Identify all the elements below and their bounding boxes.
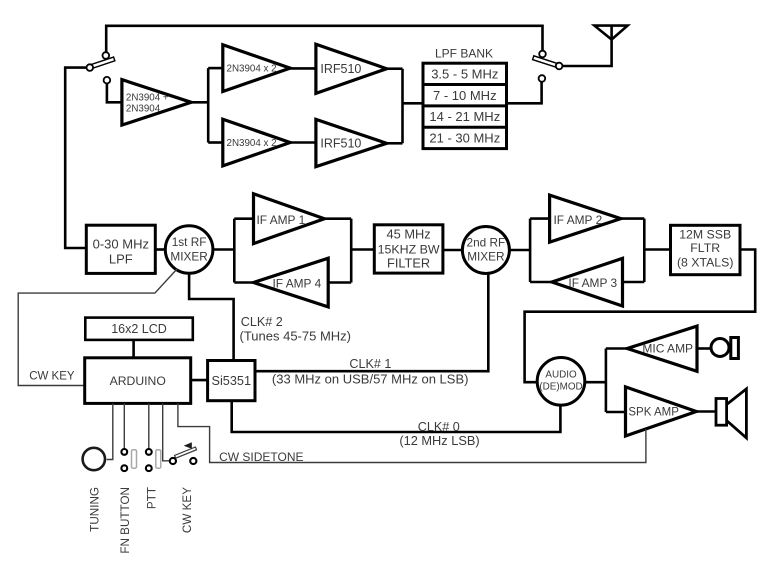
svg-text:IF AMP 4: IF AMP 4 xyxy=(273,276,322,290)
svg-text:IRF510: IRF510 xyxy=(320,136,361,150)
button PTT upper contact xyxy=(146,449,152,455)
button PTT lower contact xyxy=(146,465,152,471)
wire junction to mic amp output xyxy=(606,347,627,350)
filter LPF bank box xyxy=(423,63,507,148)
amp IF AMP 1 xyxy=(254,194,325,244)
wire LCD to Arduino xyxy=(132,340,135,358)
wire CLK#1 from Si5351 to 2nd mixer xyxy=(255,274,488,372)
wire Arduino pin to tuning encoder xyxy=(107,403,113,459)
filter 0-30 MHz LPF xyxy=(86,225,155,273)
speaker xyxy=(727,389,747,438)
svg-text:IRF510: IRF510 xyxy=(320,62,361,76)
wire RX feed from left switch common down to 0-30MHz LPF xyxy=(65,68,86,248)
svg-text:AUDIO: AUDIO xyxy=(545,369,577,380)
wire PA combine junction vertical xyxy=(401,69,404,144)
svg-text:CLK# 0: CLK# 0 xyxy=(418,420,460,434)
wire spk amp to speaker xyxy=(696,410,715,413)
amp PA IRF510 (bottom) xyxy=(316,119,387,166)
antenna xyxy=(594,26,627,40)
wire LPF to 1st mixer xyxy=(155,248,165,251)
wire split to top pre-driver xyxy=(208,67,223,70)
svg-text:LPF: LPF xyxy=(109,252,133,267)
svg-text:PTT: PTT xyxy=(145,487,158,509)
svg-text:CW KEY: CW KEY xyxy=(29,371,75,383)
mixer 2nd RF MIXER xyxy=(462,227,509,274)
wire PA to LPF bank xyxy=(403,102,424,105)
amp IF AMP 3 xyxy=(552,258,623,306)
wire 45MHz filter to 2nd mixer xyxy=(443,249,463,252)
svg-text:FN BUTTON: FN BUTTON xyxy=(119,487,132,554)
svg-text:TUNING: TUNING xyxy=(88,487,101,532)
wire CW KEY line from 1st mixer to Arduino xyxy=(18,269,177,386)
wire Arduino pin to PTT button xyxy=(148,403,150,448)
switch S1 common contact xyxy=(87,64,94,71)
wire IF amp 4 output xyxy=(234,281,253,284)
wire CLK#0 from Si5351 to audio (de)mod xyxy=(232,401,561,432)
wire top IRF510 output xyxy=(387,67,403,70)
svg-text:MIXER: MIXER xyxy=(170,249,207,263)
switch CW key contact xyxy=(190,458,196,464)
svg-text:(33 MHz on USB/57 MHz on LSB): (33 MHz on USB/57 MHz on LSB) xyxy=(272,372,469,387)
wire Arduino pin to FN button xyxy=(123,403,125,448)
wire antenna switch common to antenna xyxy=(562,39,611,66)
svg-text:FLTR: FLTR xyxy=(690,241,720,255)
mcu ARDUINO xyxy=(85,358,191,404)
amp pre-driver 2N3904 x 2 (bottom) xyxy=(223,119,290,166)
svg-text:45 MHz: 45 MHz xyxy=(387,227,431,242)
switch S1 TX/RX lever xyxy=(92,57,115,68)
wire IF amp 1 output xyxy=(324,217,351,220)
wire split junction vertical xyxy=(207,68,210,142)
wire junction to SSB filter xyxy=(644,248,670,251)
svg-text:0-30 MHz: 0-30 MHz xyxy=(93,237,149,252)
wire IF amp 3 output xyxy=(530,281,552,284)
amp pre-driver 2N3904 x 2 (top) xyxy=(223,45,290,92)
amp MIC AMP xyxy=(627,326,697,371)
amp SPK AMP xyxy=(626,387,697,436)
svg-text:CW SIDETONE: CW SIDETONE xyxy=(219,450,303,464)
svg-text:16x2 LCD: 16x2 LCD xyxy=(111,322,167,336)
switch S2 antenna lever xyxy=(533,56,561,69)
button FN upper contact xyxy=(121,449,127,455)
svg-text:2N3904 x 2: 2N3904 x 2 xyxy=(227,64,277,75)
wire to IF amp 3 input xyxy=(623,281,645,284)
svg-text:Si5351: Si5351 xyxy=(212,374,252,388)
wire split to bottom pre-driver xyxy=(208,141,223,144)
wire driver output to split xyxy=(191,101,208,104)
wire IF amp 2/3 left junction xyxy=(529,219,532,282)
wire IF amp 1/4 left junction xyxy=(233,219,236,283)
wire junction to spk amp input xyxy=(606,411,626,414)
wire to IF amp 4 input xyxy=(328,281,351,284)
svg-text:2nd RF: 2nd RF xyxy=(467,235,506,249)
wire bottom IRF510 output xyxy=(387,142,403,145)
amp PA IRF510 (top) xyxy=(316,44,387,93)
svg-text:CW KEY: CW KEY xyxy=(181,487,194,533)
svg-text:IF AMP 2: IF AMP 2 xyxy=(554,213,603,227)
wire mic amp to microphone xyxy=(697,347,710,350)
svg-text:21 - 30 MHz: 21 - 30 MHz xyxy=(429,131,500,146)
wire 2nd mixer to IF amp 2/3 junction xyxy=(509,249,530,252)
svg-text:2N3904: 2N3904 xyxy=(126,104,161,115)
svg-text:1st RF: 1st RF xyxy=(172,235,207,249)
svg-text:LPF BANK: LPF BANK xyxy=(435,46,493,60)
switch S1 upper throw contact xyxy=(103,52,110,59)
switch CW key lever xyxy=(175,447,197,458)
switch S2 common contact xyxy=(556,63,563,70)
wire CLK#2 from Si5351 to 1st mixer xyxy=(189,273,234,360)
svg-text:2N3904 x 2: 2N3904 x 2 xyxy=(227,138,277,149)
wire IF amp 2/3 right junction xyxy=(643,219,646,282)
svg-text:3.5 - 5 MHz: 3.5 - 5 MHz xyxy=(431,67,498,82)
svg-text:12M SSB: 12M SSB xyxy=(679,228,731,242)
svg-text:(DE)MOD: (DE)MOD xyxy=(539,381,582,392)
svg-text:(8 XTALS): (8 XTALS) xyxy=(677,255,734,269)
wire bottom pre-driver to IRF510 xyxy=(290,141,316,144)
wire to IF amp 1 input xyxy=(234,217,253,220)
button PTT actuator xyxy=(156,450,161,469)
synthesizer Si5351 xyxy=(208,361,255,401)
wire top pre-driver to IRF510 xyxy=(290,67,316,70)
audio (de)modulator xyxy=(537,358,585,406)
switch CW key arrow xyxy=(184,442,192,449)
svg-text:CLK# 2: CLK# 2 xyxy=(241,315,283,329)
wire CW sidetone from Arduino to SPK amp xyxy=(178,403,646,462)
svg-text:CLK# 1: CLK# 1 xyxy=(349,357,391,371)
svg-text:SPK AMP: SPK AMP xyxy=(628,407,679,419)
switch S2 lower throw contact xyxy=(539,75,546,82)
wire TX top (PA input from switch to antenna switch) xyxy=(106,26,542,53)
wire 1st mixer to IF junction xyxy=(213,248,234,251)
wire to IF amp 2 input xyxy=(530,217,550,220)
wire Arduino pin to CW key xyxy=(163,403,170,460)
switch S2 upper throw contact xyxy=(539,51,546,58)
svg-text:14 - 21 MHz: 14 - 21 MHz xyxy=(429,109,500,124)
svg-text:2N3904 +: 2N3904 + xyxy=(126,93,169,104)
wire IF amp 1/4 right junction xyxy=(350,219,353,283)
svg-text:(Tunes 45-75 MHz): (Tunes 45-75 MHz) xyxy=(240,328,352,343)
amp IF AMP 4 xyxy=(254,258,329,307)
button FN actuator xyxy=(132,450,137,469)
mixer 1st RF MIXER xyxy=(165,226,213,274)
svg-text:FILTER: FILTER xyxy=(387,256,430,271)
wire LPF bank to antenna switch xyxy=(507,82,542,104)
wire IF junction to 45MHz filter xyxy=(351,248,374,251)
svg-text:(12 MHz LSB): (12 MHz LSB) xyxy=(399,433,479,448)
display 16x2 LCD xyxy=(85,318,193,340)
svg-text:ARDUINO: ARDUINO xyxy=(110,374,166,388)
wire IF amp 2 output xyxy=(621,217,645,220)
wire audio to mic/spk junction xyxy=(585,381,606,384)
svg-text:MIC AMP: MIC AMP xyxy=(642,342,693,356)
wire mic/spk junction vertical xyxy=(605,349,608,413)
svg-text:7 - 10 MHz: 7 - 10 MHz xyxy=(433,88,497,103)
button FN lower contact xyxy=(121,465,127,471)
switch CW key common contact xyxy=(170,458,176,464)
svg-text:IF AMP 1: IF AMP 1 xyxy=(257,213,306,227)
wire from left switch lower throw to driver amp xyxy=(107,83,122,102)
amp driver 2N3904 + 2N3904 xyxy=(122,80,191,126)
microphone xyxy=(711,339,729,357)
filter 12M SSB FLTR (8 XTALS) xyxy=(671,225,741,274)
amp IF AMP 2 xyxy=(550,195,621,242)
svg-text:IF AMP 3: IF AMP 3 xyxy=(568,276,617,290)
wire SSB filter to audio (de)mod xyxy=(525,250,756,383)
wire Arduino to Si5351 xyxy=(191,379,208,382)
control tuning knob xyxy=(83,448,105,470)
filter 45 MHz 15KHZ BW FILTER xyxy=(374,225,443,273)
svg-text:MIXER: MIXER xyxy=(467,250,504,264)
switch S1 lower throw contact xyxy=(104,77,111,84)
svg-text:15KHZ BW: 15KHZ BW xyxy=(378,242,440,256)
